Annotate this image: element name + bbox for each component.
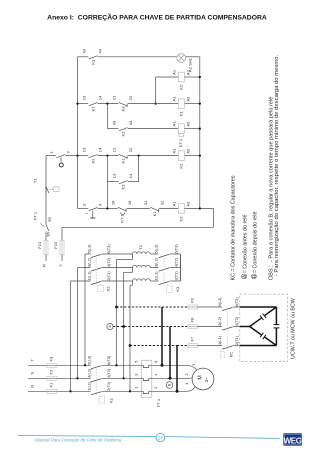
- svg-text:A: A: [108, 325, 112, 328]
- svg-text:5(L3): 5(L3): [86, 355, 91, 365]
- svg-text:R: R: [42, 264, 47, 267]
- svg-text:3(L2): 3(L2): [86, 257, 91, 267]
- svg-text:2(T1): 2(T1): [106, 381, 111, 391]
- logo WEG: [283, 433, 302, 446]
- node left bus K1 rung: [76, 102, 78, 104]
- svg-text:K1: K1: [152, 211, 157, 217]
- svg-text:A1: A1: [171, 148, 176, 154]
- svg-text:K3: K3: [121, 184, 126, 190]
- node K2 rung x107: [106, 154, 108, 156]
- node K1-A2: [199, 102, 201, 104]
- svg-text:6(T3): 6(T3): [106, 244, 111, 254]
- svg-text:1(L1): 1(L1): [86, 381, 91, 391]
- svg-text:Anexo I: CORREÇÃO PARA CHAVE: Anexo I: CORREÇÃO PARA CHAVE DE PARTIDA …: [47, 12, 267, 21]
- svg-text:2(T1): 2(T1): [106, 271, 111, 281]
- pushbutton I start: [89, 208, 98, 211]
- svg-text:KT 1: KT 1: [178, 138, 183, 147]
- node cap tap 3: [129, 344, 132, 347]
- svg-text:95: 95: [47, 217, 52, 222]
- svg-text:6: 6: [153, 361, 158, 363]
- svg-text:13: 13: [112, 173, 117, 178]
- svg-text:4(T2): 4(T2): [234, 316, 239, 326]
- wire star point bar: [180, 254, 182, 281]
- wire right control bus: [199, 57, 201, 209]
- contactor K1 power contacts: [91, 366, 101, 369]
- svg-text:4(T2): 4(T2): [173, 257, 178, 267]
- footer rule left: [18, 435, 156, 436]
- lamp SH1: [177, 54, 186, 63]
- node K2 rung x138: [137, 154, 139, 156]
- svg-text:3(L2): 3(L2): [217, 316, 222, 326]
- node B3: [176, 390, 179, 393]
- motor M: [192, 368, 214, 390]
- svg-text:6(T3): 6(T3): [106, 355, 111, 365]
- svg-text:F3: F3: [48, 356, 53, 361]
- capacitor C2: [250, 327, 262, 336]
- svg-text:F7: F7: [189, 336, 194, 341]
- svg-text:2(T1): 2(T1): [234, 335, 239, 345]
- svg-text:B: B: [168, 383, 172, 386]
- contactor KC power contacts: [222, 307, 232, 310]
- svg-text:16: 16: [111, 200, 116, 205]
- wire control feed R: [45, 156, 47, 194]
- svg-text:K1: K1: [178, 110, 183, 116]
- wire connection B vertical 2: [169, 327, 171, 379]
- svg-text:K3: K3: [178, 216, 183, 222]
- footer rule right: [165, 437, 279, 439]
- svg-text:F1: F1: [48, 382, 53, 387]
- svg-text:K1: K1: [121, 158, 126, 164]
- svg-text:3(L2): 3(L2): [154, 257, 159, 267]
- node K3-A2: [199, 207, 201, 209]
- svg-text:K2: K2: [90, 158, 95, 164]
- svg-text:B = Conexão depois do relé: B = Conexão depois do relé: [252, 212, 258, 279]
- svg-text:UCW-T ou MCW ou BCW: UCW-T ou MCW ou BCW: [291, 298, 297, 359]
- svg-text:I: I: [84, 213, 89, 214]
- wire connection B vertical 3: [176, 346, 178, 392]
- svg-text:F22: F22: [53, 241, 58, 249]
- node K2-A2: [199, 154, 201, 156]
- svg-text:A2: A2: [186, 121, 191, 127]
- overload contact FT1 95-96: [46, 225, 49, 232]
- svg-text:A = Conexão antes do relé: A = Conexão antes do relé: [243, 215, 249, 279]
- svg-text:KT 1: KT 1: [119, 214, 124, 223]
- node K1-rung tap: [154, 102, 156, 104]
- node tee R: [69, 390, 71, 392]
- fuse F1: [47, 390, 57, 392]
- svg-text:A2: A2: [186, 201, 191, 207]
- svg-text:A1: A1: [171, 96, 176, 102]
- svg-text:K1: K1: [90, 106, 95, 112]
- fuse F2: [47, 377, 57, 379]
- svg-text:FT 1: FT 1: [33, 211, 38, 220]
- svg-text:K2: K2: [121, 131, 126, 137]
- contact K1 21-22: [119, 154, 128, 159]
- svg-text:6(T3): 6(T3): [173, 244, 178, 254]
- wire start rung: [78, 208, 89, 210]
- node start rung x107: [106, 207, 108, 209]
- svg-text:A1: A1: [171, 201, 176, 207]
- autotransformer T1 windings: [133, 252, 151, 254]
- svg-text:R: R: [29, 385, 34, 388]
- svg-text:KC = Contator de manobra dos C: KC = Contator de manobra dos Capacitores: [231, 175, 237, 280]
- svg-text:K3: K3: [121, 106, 126, 112]
- svg-text:WEG: WEG: [284, 436, 302, 445]
- contactor coil K1: [178, 99, 184, 109]
- node tap S motor line: [122, 377, 124, 379]
- capacitor C3: [275, 307, 277, 325]
- svg-text:2: 2: [153, 387, 158, 389]
- contactor coil KC: [178, 72, 184, 82]
- timed contact KT1 15-16: [118, 207, 127, 212]
- svg-text:3(L2): 3(L2): [86, 368, 91, 378]
- svg-text:21: 21: [112, 95, 117, 100]
- svg-text:22: 22: [128, 95, 133, 100]
- svg-text:6(T3): 6(T3): [234, 297, 239, 307]
- svg-text:F2: F2: [48, 369, 53, 374]
- svg-text:15: 15: [127, 200, 132, 205]
- svg-text:A2: A2: [186, 69, 191, 75]
- wire connection B vertical 1: [161, 307, 163, 365]
- wire K2 rung: [78, 155, 89, 157]
- svg-text:2(T1): 2(T1): [173, 271, 178, 281]
- svg-text:13: 13: [81, 95, 86, 100]
- fuse F8: [188, 326, 198, 328]
- svg-text:4(T2): 4(T2): [106, 257, 111, 267]
- capacitor unit dashed box: [240, 294, 288, 362]
- fuse F7: [188, 345, 198, 347]
- svg-text:14: 14: [98, 95, 103, 100]
- svg-text:4(T2): 4(T2): [106, 368, 111, 378]
- wire transformer taps: [132, 254, 134, 259]
- wire branch risers to K2: [84, 254, 86, 365]
- svg-text:T1: T1: [33, 178, 38, 183]
- wire cap lines to KC: [198, 306, 223, 308]
- svg-text:31: 31: [143, 200, 148, 205]
- svg-text:1: 1: [184, 383, 189, 385]
- svg-text:Manual Para Correção do Fator: Manual Para Correção do Fator de Potênci…: [35, 437, 122, 442]
- node K1 rung x107: [106, 102, 108, 104]
- svg-text:5(L3): 5(L3): [86, 244, 91, 254]
- wire capacitor dashed feed 3: [130, 345, 177, 347]
- svg-text:14: 14: [98, 147, 103, 152]
- svg-text:13: 13: [81, 147, 86, 152]
- capacitor delta wiring: [240, 306, 277, 308]
- node tap T motor line: [115, 364, 117, 366]
- svg-text:3~: 3~: [204, 377, 209, 382]
- fuse F22: [61, 240, 63, 255]
- svg-text:1: 1: [134, 387, 139, 389]
- connection label A: [107, 323, 113, 329]
- svg-text:A1: A1: [171, 121, 176, 127]
- node cap tap 2: [122, 325, 125, 328]
- svg-text:3: 3: [191, 364, 196, 366]
- svg-text:K1: K1: [109, 397, 114, 403]
- svg-text:A1: A1: [171, 69, 176, 75]
- svg-text:M: M: [197, 375, 203, 379]
- node tap R motor line: [129, 390, 131, 392]
- wire left control bus: [77, 57, 79, 209]
- contact K3 21-22: [119, 102, 128, 107]
- node KT1-A2: [199, 127, 201, 129]
- wire capacitor dashed feed 2: [113, 326, 170, 328]
- svg-text:K2: K2: [178, 163, 183, 169]
- svg-text:A2: A2: [186, 96, 191, 102]
- wire K1 rung: [78, 103, 89, 105]
- svg-text:KC: KC: [228, 352, 233, 358]
- node B1: [161, 364, 164, 367]
- svg-text:FT 1: FT 1: [156, 398, 161, 407]
- svg-text:5(L3): 5(L3): [217, 297, 222, 307]
- svg-text:44: 44: [128, 120, 133, 125]
- svg-text:A2: A2: [186, 148, 191, 154]
- contact K2 43-44: [119, 128, 128, 131]
- contactor coil K3: [178, 204, 184, 214]
- capacitor C1: [264, 307, 276, 316]
- contact K1 13-14: [89, 103, 98, 106]
- svg-text:KC: KC: [178, 84, 183, 90]
- svg-text:96: 96: [46, 232, 51, 237]
- wire phase line T: [28, 364, 91, 366]
- wire capacitor dashed feed 1: [117, 306, 163, 308]
- svg-text:F9: F9: [189, 297, 194, 302]
- svg-text:F8: F8: [189, 317, 194, 322]
- svg-text:22: 22: [128, 147, 133, 152]
- wire seal branch K3 13-14: [106, 156, 108, 209]
- svg-text:1(L1): 1(L1): [86, 271, 91, 281]
- svg-text:A2 SH1: A2 SH1: [188, 57, 193, 72]
- svg-text:K1: K1: [90, 59, 95, 65]
- node tee T: [84, 364, 86, 366]
- contactor coil K2: [178, 151, 184, 161]
- svg-text:F21: F21: [37, 241, 42, 249]
- wire control return S: [213, 209, 215, 228]
- wire phase line S: [28, 377, 91, 379]
- svg-text:s: s: [58, 264, 63, 266]
- pushbutton 0 stop: [56, 155, 65, 158]
- contact K1 31-32: [150, 207, 159, 212]
- wire KC rung: [156, 76, 179, 78]
- svg-text:- Para reenergização do capaci: - Para reenergização do capacitor, respe…: [274, 54, 280, 276]
- svg-text:32: 32: [159, 200, 164, 205]
- contact K1 43-44: [89, 56, 98, 59]
- wire KT1 rung: [106, 104, 108, 129]
- fuse F3: [47, 364, 57, 366]
- svg-text:44: 44: [98, 48, 103, 53]
- contactor K3 power contacts: [155, 253, 159, 255]
- wire phase line R: [28, 390, 91, 392]
- fuse F21: [45, 240, 47, 255]
- fuse F9: [188, 306, 198, 308]
- timer coil KT1: [178, 124, 184, 134]
- svg-text:T1: T1: [138, 244, 143, 249]
- node KC-A2: [199, 76, 201, 78]
- svg-text:S: S: [29, 372, 34, 375]
- svg-text:21: 21: [112, 147, 117, 152]
- svg-text:3: 3: [134, 374, 139, 376]
- node B2: [169, 377, 172, 380]
- node left bus K2 rung: [76, 154, 78, 156]
- node cap tap 1: [115, 306, 118, 309]
- page number badge: [156, 434, 165, 442]
- node tee S: [76, 377, 78, 379]
- svg-text:2: 2: [184, 373, 189, 375]
- contact K2 13-14: [89, 155, 98, 158]
- contact K3 13-14: [119, 181, 128, 184]
- connection label B: [166, 382, 173, 389]
- wire lamp rung: [78, 56, 89, 58]
- contactor K2 power contacts: [85, 253, 91, 255]
- svg-text:1(L1): 1(L1): [217, 335, 222, 345]
- overload relay FT1: [141, 360, 152, 397]
- svg-text:14: 14: [128, 173, 133, 178]
- thermal contact T1: [46, 186, 49, 193]
- svg-text:43: 43: [81, 48, 86, 53]
- svg-text:5(L3): 5(L3): [154, 244, 159, 254]
- svg-text:27: 27: [157, 435, 164, 440]
- svg-text:43: 43: [112, 120, 117, 125]
- svg-text:K2: K2: [106, 286, 111, 292]
- svg-text:5: 5: [134, 361, 139, 363]
- svg-text:K3: K3: [175, 286, 180, 292]
- svg-text:1(L1): 1(L1): [154, 271, 159, 281]
